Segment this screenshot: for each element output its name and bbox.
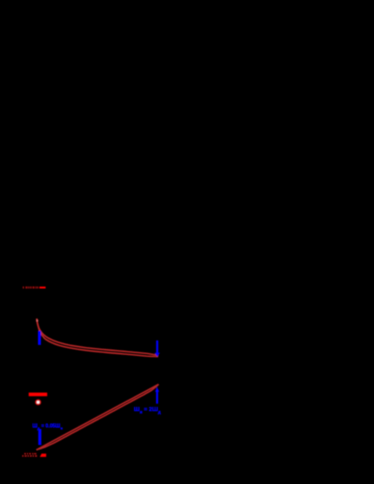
node label n1 (tiny dark red text, top legend row) <box>23 286 39 288</box>
wire (blue up arrow, right end of rising line) <box>155 387 159 404</box>
node marker (red circle with white core) <box>35 399 41 405</box>
wire (red level tick, middle) <box>29 393 48 397</box>
node A (curve start tip highlight) <box>36 320 38 322</box>
wire (decay curve, outer red stroke) <box>37 319 159 357</box>
wire (blue down arrow, right end of decay curve) <box>155 340 160 356</box>
wire (blue bar under WA text) <box>38 429 41 445</box>
wire (decay curve, inner red stroke) <box>37 319 159 356</box>
wire (rising line, bowed stroke) <box>36 384 158 450</box>
node label n2 (tiny dark red text rows, bottom) <box>22 453 37 457</box>
svg-text:Шд = 0.05Ши: Шд = 0.05Ши <box>32 423 63 430</box>
wire (rising line, straight stroke) <box>36 384 158 450</box>
wire (red level tick, bottom) <box>40 454 46 457</box>
wire (red level tick, top) <box>39 287 45 289</box>
node marker (blue bar, left of decay curve) <box>38 331 41 345</box>
